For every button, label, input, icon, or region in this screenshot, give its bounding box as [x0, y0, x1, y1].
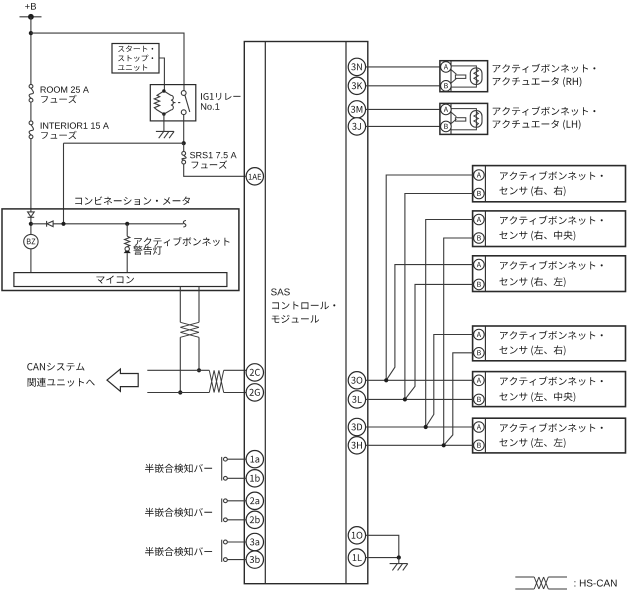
junction [182, 141, 186, 145]
label half-fit bar [145, 508, 212, 517]
pin 3b [246, 551, 263, 568]
wire +B down [30, 17, 32, 85]
wire sensor-rr B to 3L [405, 194, 474, 400]
wire CAN-H bus [147, 369, 209, 371]
wire 3J to actuator LH B [366, 125, 441, 127]
wire CAN-H down [198, 337, 200, 370]
wire sensor-rr A to 3O [386, 175, 473, 380]
pin 1b [246, 470, 263, 487]
junction [197, 368, 201, 372]
pin 1L [348, 549, 365, 566]
junction [384, 378, 388, 382]
wire start-stop to relay coil [159, 58, 164, 90]
label CAN system line1 [27, 363, 84, 371]
wire [227, 458, 246, 460]
pin 2C [246, 364, 263, 381]
wire to meter branch [64, 142, 184, 144]
pin A [474, 170, 485, 181]
legend HS-CAN twisted pair [515, 577, 567, 589]
fuse ROOM 25A [29, 84, 33, 102]
pin 3K [348, 77, 365, 94]
junction [424, 425, 428, 429]
pin B [474, 279, 485, 290]
sensor right-left box [473, 256, 626, 292]
wire 3M to actuator LH A [366, 108, 441, 110]
wire BZ to micro [30, 249, 32, 273]
label half-fit bar [145, 547, 212, 556]
wire relay out [183, 115, 185, 144]
wire 1L to ground [366, 557, 399, 559]
pin 1a [246, 451, 263, 468]
pin A [441, 62, 452, 73]
warning lamp active bonnet [125, 247, 129, 251]
wire sensor-rl B to 3L [405, 284, 474, 399]
wire meter internal [53, 223, 183, 225]
label sensor right-right line1 [500, 171, 603, 180]
wire coil to ground [163, 114, 165, 131]
wire bus 3H [366, 444, 474, 446]
pin 1AE [246, 168, 263, 185]
wire [227, 519, 246, 521]
wire [227, 559, 246, 561]
sensor left-right box [473, 326, 626, 361]
label sensor left-left line1 [500, 423, 603, 432]
pin B [474, 440, 485, 451]
actuator active bonnet RH [440, 61, 488, 92]
pin B [474, 348, 485, 359]
wire to meter [30, 139, 32, 213]
wire bus 3D [366, 426, 474, 428]
pin A [441, 104, 452, 115]
pin 2a [246, 492, 263, 509]
junction [61, 222, 65, 226]
wire sensor-rc A to 3D [426, 220, 474, 428]
wire to 2C [224, 369, 247, 371]
label CAN system line2 [28, 378, 95, 387]
sensor left-centre box [473, 372, 626, 407]
SAS control module box [244, 42, 367, 584]
label warning lamp line1 [134, 237, 229, 246]
junction [178, 390, 182, 394]
label half-fit bar [145, 464, 212, 473]
half-fit detection bar [221, 457, 223, 481]
pin A [474, 214, 485, 225]
junction [125, 222, 129, 226]
wire [30, 102, 32, 121]
wire branch down [63, 143, 65, 224]
junction [403, 397, 407, 401]
diode D1 [28, 212, 35, 217]
sensor right-right box [473, 166, 626, 202]
wire sensor-lr B to 3H [444, 353, 474, 446]
wire sensor-lr A to 3D [426, 335, 474, 428]
pin 1O [348, 527, 365, 544]
pin B [474, 188, 485, 199]
fuse SRS1 7.5A [182, 152, 186, 165]
sensor right-centre box [473, 211, 626, 247]
junction [442, 443, 446, 447]
wire sensor-rl A to 3O [386, 265, 473, 381]
buzzer BZ [24, 234, 38, 248]
wire 1O to ground [366, 535, 399, 557]
pin 2G [246, 384, 263, 401]
wire lamp to micro [126, 253, 128, 273]
twisted pair symbol vertical [180, 322, 199, 337]
label sensor left-centre line1 [500, 376, 603, 385]
wire continuation hook [183, 221, 186, 228]
wire bus 3O [366, 379, 474, 381]
sensor left-left box [473, 418, 626, 453]
node +B battery [25, 3, 36, 10]
wire 3N to actuator RH A [366, 66, 441, 68]
label combination meter [75, 196, 190, 205]
wire 3K to actuator RH B [366, 85, 441, 87]
pin 3J [348, 118, 365, 135]
junction [29, 222, 33, 226]
pin 3D [348, 418, 365, 435]
pin 3N [348, 58, 365, 75]
wire [30, 217, 32, 234]
label sensor left-right line1 [500, 331, 603, 340]
pin 3M [348, 101, 365, 118]
microcomputer box [14, 273, 227, 287]
pin 3O [348, 372, 365, 389]
pin B [441, 81, 452, 92]
wire sensor-rc B to 3H [444, 238, 474, 445]
actuator active bonnet LH [440, 103, 488, 134]
wire [227, 477, 246, 479]
relay contact [173, 91, 190, 115]
wire CAN-L from micro [179, 287, 181, 323]
pin 3H [348, 437, 365, 454]
pin 2b [246, 511, 263, 528]
wire CAN-L bus [147, 392, 209, 394]
pin 3a [246, 533, 263, 550]
pin 3L [348, 391, 365, 408]
label IG1 relay [201, 93, 240, 100]
label sensor right-left line1 [500, 261, 603, 270]
wire [398, 558, 400, 564]
wire CAN-H from micro [198, 287, 200, 323]
relay coil with resistor [154, 91, 173, 114]
wire [31, 223, 47, 225]
fuse INTERIOR1 15A [29, 121, 33, 139]
pin B [474, 233, 485, 244]
wire [227, 500, 246, 502]
pin A [474, 329, 485, 340]
ground module [390, 564, 408, 571]
wire [183, 143, 185, 151]
label sensor right-centre line1 [500, 216, 603, 225]
wire to 2G [224, 392, 247, 394]
pin B [474, 394, 485, 405]
junction [397, 555, 401, 559]
label SAS control module [271, 289, 290, 296]
wire fuse to 1AE [184, 164, 247, 176]
wire CAN-L down [179, 337, 181, 392]
pin A [474, 375, 485, 386]
pin A [474, 259, 485, 270]
label active bonnet LH line1 [493, 106, 596, 115]
pin A [474, 422, 485, 433]
half-fit detection bar [221, 499, 223, 523]
combination meter box [2, 209, 239, 291]
pin B [441, 121, 452, 132]
wire [227, 541, 246, 543]
wire +B to relay [31, 33, 184, 91]
label active bonnet RH line1 [493, 64, 596, 73]
ground relay coil [156, 131, 174, 138]
wire [126, 224, 128, 237]
junction [29, 31, 33, 35]
half-fit detection bar [221, 540, 223, 562]
label warning lamp line2 [133, 246, 162, 255]
arrow to CAN system units [107, 369, 138, 391]
wire bus 3L [366, 398, 474, 400]
relay IG1 No.1 [150, 85, 196, 121]
start-stop unit box [112, 44, 159, 74]
twisted pair symbol horizontal [209, 370, 223, 392]
